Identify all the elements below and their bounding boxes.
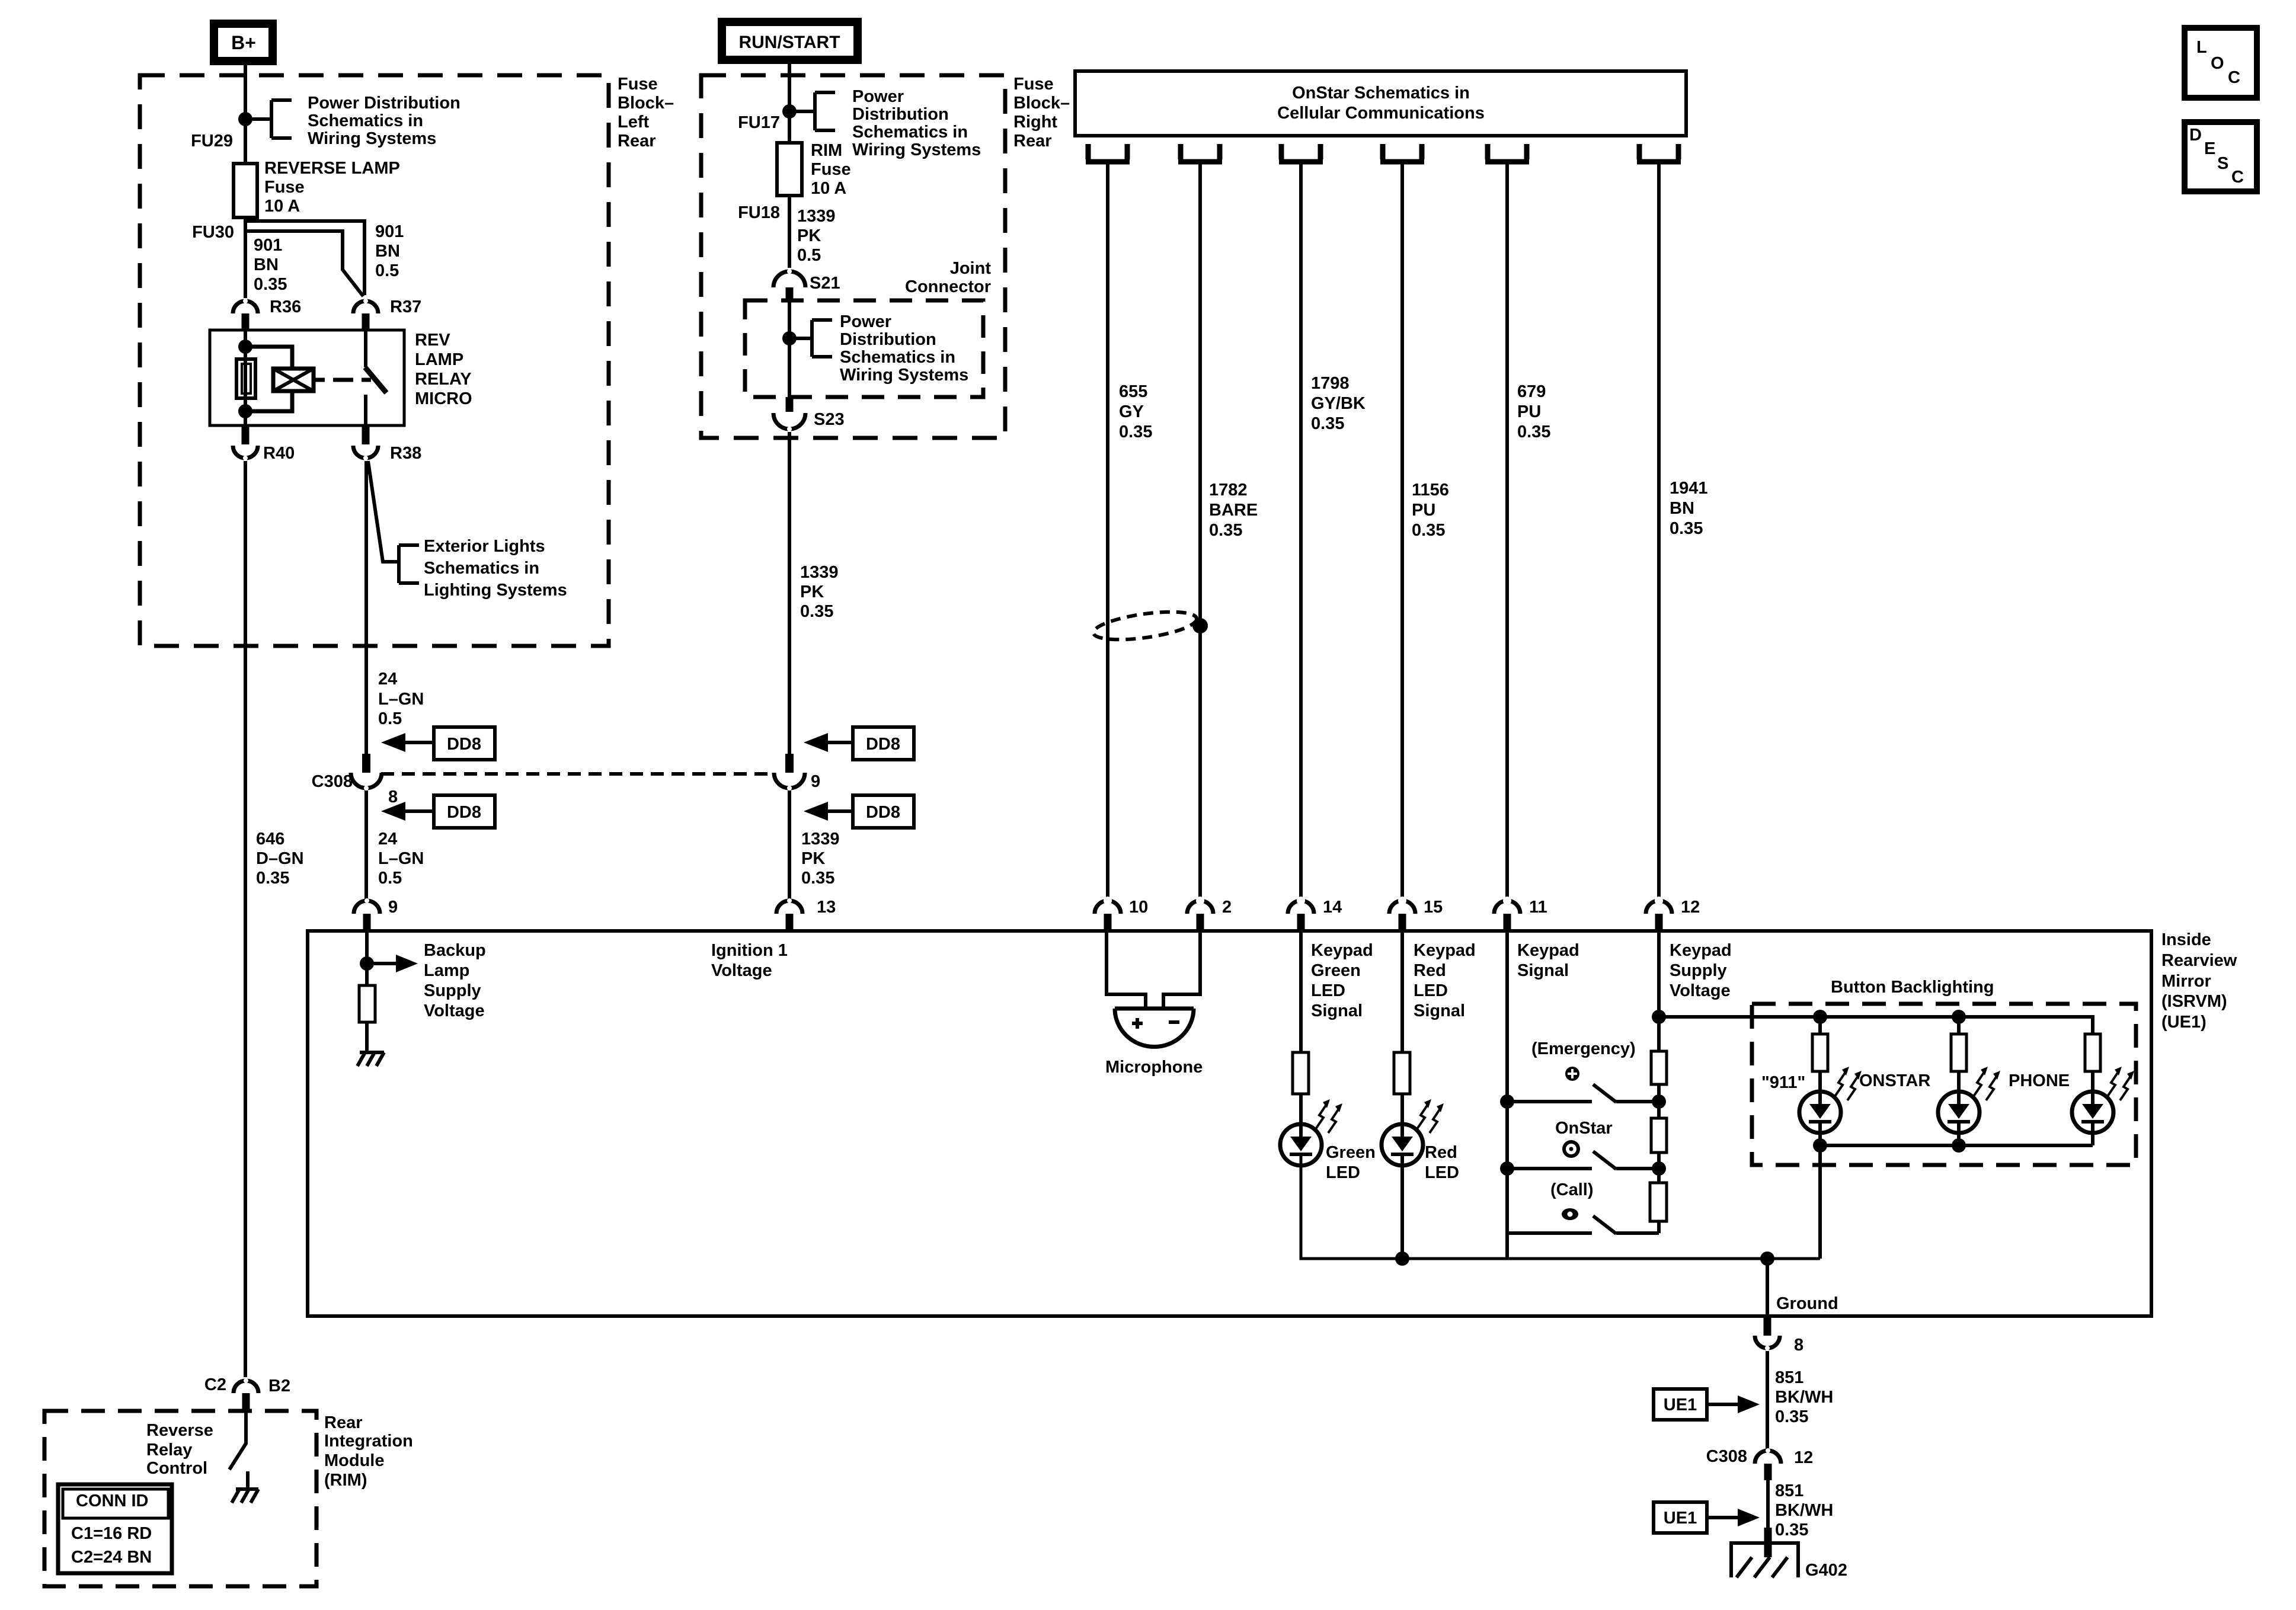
svg-text:DD8: DD8 xyxy=(866,803,900,822)
svg-text:Voltage: Voltage xyxy=(1670,981,1731,1000)
svg-text:Rear: Rear xyxy=(324,1413,363,1432)
svg-text:Green: Green xyxy=(1326,1143,1376,1162)
svg-text:0.5: 0.5 xyxy=(378,709,402,728)
svg-text:Schematics in: Schematics in xyxy=(424,559,539,578)
svg-text:851: 851 xyxy=(1775,1481,1803,1500)
svg-text:LED: LED xyxy=(1425,1163,1459,1182)
svg-text:C308: C308 xyxy=(1706,1447,1747,1466)
svg-text:Fuse: Fuse xyxy=(1013,75,1054,94)
svg-text:GY: GY xyxy=(1119,402,1144,421)
svg-text:8: 8 xyxy=(1794,1336,1803,1355)
svg-text:BN: BN xyxy=(254,255,279,274)
svg-text:8: 8 xyxy=(388,788,398,806)
svg-text:S21: S21 xyxy=(810,274,840,293)
svg-text:Wiring Systems: Wiring Systems xyxy=(852,140,981,159)
svg-text:901: 901 xyxy=(375,222,404,241)
svg-text:UE1: UE1 xyxy=(1664,1395,1697,1414)
svg-text:BN: BN xyxy=(375,242,400,261)
svg-text:"911": "911" xyxy=(1761,1073,1805,1092)
svg-text:Keypad: Keypad xyxy=(1670,941,1732,960)
svg-text:BARE: BARE xyxy=(1209,501,1258,520)
svg-text:E: E xyxy=(2204,139,2215,158)
svg-text:1339: 1339 xyxy=(797,207,836,226)
svg-text:Lighting Systems: Lighting Systems xyxy=(424,581,567,600)
svg-text:RIM: RIM xyxy=(811,141,842,160)
svg-text:1339: 1339 xyxy=(801,830,840,849)
svg-text:Ground: Ground xyxy=(1776,1294,1838,1313)
svg-text:0.35: 0.35 xyxy=(1775,1521,1808,1539)
svg-text:0.35: 0.35 xyxy=(1517,422,1550,441)
svg-text:Power: Power xyxy=(840,312,891,331)
svg-text:Wiring Systems: Wiring Systems xyxy=(840,366,968,385)
svg-text:Reverse: Reverse xyxy=(146,1421,213,1440)
svg-text:DD8: DD8 xyxy=(447,735,481,754)
svg-text:LED: LED xyxy=(1311,981,1345,1000)
svg-text:1339: 1339 xyxy=(800,563,839,582)
svg-text:REVERSE LAMP: REVERSE LAMP xyxy=(264,159,400,178)
svg-text:C308: C308 xyxy=(312,772,353,791)
svg-text:O: O xyxy=(2211,54,2224,73)
svg-text:R36: R36 xyxy=(270,297,301,316)
svg-text:679: 679 xyxy=(1517,382,1546,401)
svg-text:Microphone: Microphone xyxy=(1105,1058,1203,1077)
svg-text:D–GN: D–GN xyxy=(256,849,304,868)
svg-text:(Call): (Call) xyxy=(1550,1180,1594,1199)
svg-text:PK: PK xyxy=(797,226,821,245)
svg-text:L–GN: L–GN xyxy=(378,849,424,868)
svg-text:Rear: Rear xyxy=(618,132,656,151)
svg-text:PK: PK xyxy=(800,582,824,601)
svg-text:Block–: Block– xyxy=(1013,94,1070,113)
svg-text:Exterior Lights: Exterior Lights xyxy=(424,537,545,556)
svg-text:Button Backlighting: Button Backlighting xyxy=(1831,978,1994,997)
svg-text:10 A: 10 A xyxy=(264,197,300,216)
svg-text:0.5: 0.5 xyxy=(375,261,399,280)
svg-text:Rearview: Rearview xyxy=(2161,951,2237,970)
svg-text:R37: R37 xyxy=(390,297,421,316)
svg-text:BN: BN xyxy=(1670,499,1694,518)
svg-text:DD8: DD8 xyxy=(447,803,481,822)
svg-text:Wiring Systems: Wiring Systems xyxy=(308,129,436,148)
svg-text:0.35: 0.35 xyxy=(254,275,287,294)
svg-text:R40: R40 xyxy=(263,444,295,463)
svg-text:FU29: FU29 xyxy=(191,132,233,151)
svg-text:Red: Red xyxy=(1414,961,1446,980)
svg-text:LED: LED xyxy=(1326,1163,1360,1182)
svg-text:9: 9 xyxy=(811,772,820,791)
svg-text:MICRO: MICRO xyxy=(415,389,472,408)
svg-text:11: 11 xyxy=(1529,898,1547,917)
svg-text:655: 655 xyxy=(1119,382,1147,401)
svg-text:Distribution: Distribution xyxy=(852,105,949,124)
svg-text:Fuse: Fuse xyxy=(618,75,658,94)
svg-text:0.35: 0.35 xyxy=(1775,1407,1808,1426)
svg-text:Keypad: Keypad xyxy=(1517,941,1579,960)
svg-text:C2=24 BN: C2=24 BN xyxy=(71,1548,152,1567)
svg-text:UE1: UE1 xyxy=(1664,1509,1697,1528)
svg-text:C: C xyxy=(2228,68,2240,87)
svg-text:FU17: FU17 xyxy=(738,113,780,132)
svg-text:10: 10 xyxy=(1129,898,1148,917)
svg-text:Relay: Relay xyxy=(146,1441,192,1459)
svg-text:Rear: Rear xyxy=(1013,132,1052,151)
svg-text:0.35: 0.35 xyxy=(1670,519,1703,538)
svg-text:1941: 1941 xyxy=(1670,479,1708,498)
svg-text:Voltage: Voltage xyxy=(424,1001,485,1020)
svg-text:RUN/START: RUN/START xyxy=(738,33,840,52)
svg-text:Voltage: Voltage xyxy=(711,961,772,980)
svg-text:0.35: 0.35 xyxy=(1119,422,1152,441)
svg-text:0.35: 0.35 xyxy=(256,869,289,888)
svg-text:L–GN: L–GN xyxy=(378,690,424,709)
svg-text:Lamp: Lamp xyxy=(424,961,469,980)
svg-text:Power: Power xyxy=(852,87,904,106)
svg-text:BK/WH: BK/WH xyxy=(1775,1501,1833,1520)
svg-text:0.35: 0.35 xyxy=(1209,521,1242,540)
svg-text:Schematics in: Schematics in xyxy=(852,123,968,142)
svg-text:0.35: 0.35 xyxy=(1311,414,1344,433)
svg-text:Red: Red xyxy=(1425,1143,1457,1162)
svg-text:Supply: Supply xyxy=(424,981,481,1000)
svg-text:Signal: Signal xyxy=(1311,1001,1363,1020)
svg-text:Fuse: Fuse xyxy=(264,178,305,197)
svg-text:851: 851 xyxy=(1775,1368,1803,1387)
svg-text:CONN ID: CONN ID xyxy=(76,1491,148,1510)
svg-text:Integration: Integration xyxy=(324,1432,413,1451)
svg-text:(UE1): (UE1) xyxy=(2161,1013,2207,1032)
svg-text:Left: Left xyxy=(618,113,650,132)
svg-text:Distribution: Distribution xyxy=(840,330,936,349)
svg-text:Module: Module xyxy=(324,1451,385,1470)
svg-text:13: 13 xyxy=(817,898,836,917)
svg-text:C2: C2 xyxy=(204,1375,226,1394)
svg-text:901: 901 xyxy=(254,236,282,255)
svg-text:Cellular Communications: Cellular Communications xyxy=(1277,104,1485,123)
svg-text:12: 12 xyxy=(1794,1448,1813,1467)
svg-text:Schematics in: Schematics in xyxy=(308,111,423,130)
svg-text:Connector: Connector xyxy=(905,277,991,296)
svg-text:R38: R38 xyxy=(390,444,421,463)
svg-text:9: 9 xyxy=(388,898,398,917)
svg-text:PHONE: PHONE xyxy=(2009,1071,2070,1090)
svg-text:B2: B2 xyxy=(268,1377,290,1395)
svg-text:Power Distribution: Power Distribution xyxy=(308,94,461,113)
svg-text:Inside: Inside xyxy=(2161,930,2211,949)
svg-text:Mirror: Mirror xyxy=(2161,972,2211,991)
svg-text:Block–: Block– xyxy=(618,94,674,113)
svg-text:Keypad: Keypad xyxy=(1311,941,1373,960)
svg-text:Control: Control xyxy=(146,1459,207,1478)
svg-text:1156: 1156 xyxy=(1412,481,1449,500)
svg-text:LED: LED xyxy=(1414,981,1448,1000)
svg-text:646: 646 xyxy=(256,830,284,849)
svg-text:10 A: 10 A xyxy=(811,179,846,198)
svg-text:C: C xyxy=(2231,168,2244,187)
svg-text:S23: S23 xyxy=(814,410,845,429)
svg-text:PK: PK xyxy=(801,849,825,868)
svg-text:ONSTAR: ONSTAR xyxy=(1859,1071,1930,1090)
svg-text:0.35: 0.35 xyxy=(801,869,834,888)
svg-text:LAMP: LAMP xyxy=(415,350,463,369)
svg-text:15: 15 xyxy=(1424,898,1443,917)
svg-text:12: 12 xyxy=(1681,898,1700,917)
svg-text:FU30: FU30 xyxy=(192,223,234,242)
svg-text:REV: REV xyxy=(415,331,450,350)
svg-text:24: 24 xyxy=(378,670,397,689)
svg-text:0.35: 0.35 xyxy=(800,602,833,621)
svg-text:B+: B+ xyxy=(231,32,256,53)
svg-text:C1=16 RD: C1=16 RD xyxy=(71,1524,152,1543)
svg-text:DD8: DD8 xyxy=(866,735,900,754)
svg-text:Green: Green xyxy=(1311,961,1361,980)
svg-text:RELAY: RELAY xyxy=(415,370,472,389)
svg-text:Signal: Signal xyxy=(1414,1001,1465,1020)
svg-text:0.5: 0.5 xyxy=(797,246,821,265)
svg-text:Ignition 1: Ignition 1 xyxy=(711,941,788,960)
svg-text:Schematics in: Schematics in xyxy=(840,348,955,367)
svg-text:PU: PU xyxy=(1412,501,1435,520)
svg-text:OnStar Schematics in: OnStar Schematics in xyxy=(1292,84,1470,103)
svg-text:Joint: Joint xyxy=(950,259,992,278)
svg-text:Supply: Supply xyxy=(1670,961,1727,980)
svg-text:BK/WH: BK/WH xyxy=(1775,1388,1833,1407)
svg-text:D: D xyxy=(2189,126,2202,145)
svg-text:FU18: FU18 xyxy=(738,203,780,222)
svg-text:1798: 1798 xyxy=(1311,374,1350,393)
svg-text:Right: Right xyxy=(1013,113,1057,132)
svg-text:(Emergency): (Emergency) xyxy=(1531,1039,1636,1058)
svg-text:0.5: 0.5 xyxy=(378,869,402,888)
svg-text:L: L xyxy=(2196,38,2207,57)
svg-text:(RIM): (RIM) xyxy=(324,1471,367,1490)
svg-text:(ISRVM): (ISRVM) xyxy=(2161,992,2227,1011)
svg-text:14: 14 xyxy=(1323,898,1342,917)
svg-text:Fuse: Fuse xyxy=(811,160,851,179)
svg-text:24: 24 xyxy=(378,830,397,849)
svg-text:S: S xyxy=(2217,154,2228,173)
svg-text:0.35: 0.35 xyxy=(1412,521,1445,540)
svg-text:PU: PU xyxy=(1517,402,1541,421)
svg-text:2: 2 xyxy=(1222,898,1232,917)
svg-text:Signal: Signal xyxy=(1517,961,1569,980)
svg-text:G402: G402 xyxy=(1805,1561,1847,1580)
svg-text:Backup: Backup xyxy=(424,941,486,960)
svg-text:GY/BK: GY/BK xyxy=(1311,394,1366,413)
svg-text:1782: 1782 xyxy=(1209,481,1248,500)
svg-text:OnStar: OnStar xyxy=(1555,1119,1613,1138)
svg-text:Keypad: Keypad xyxy=(1414,941,1476,960)
